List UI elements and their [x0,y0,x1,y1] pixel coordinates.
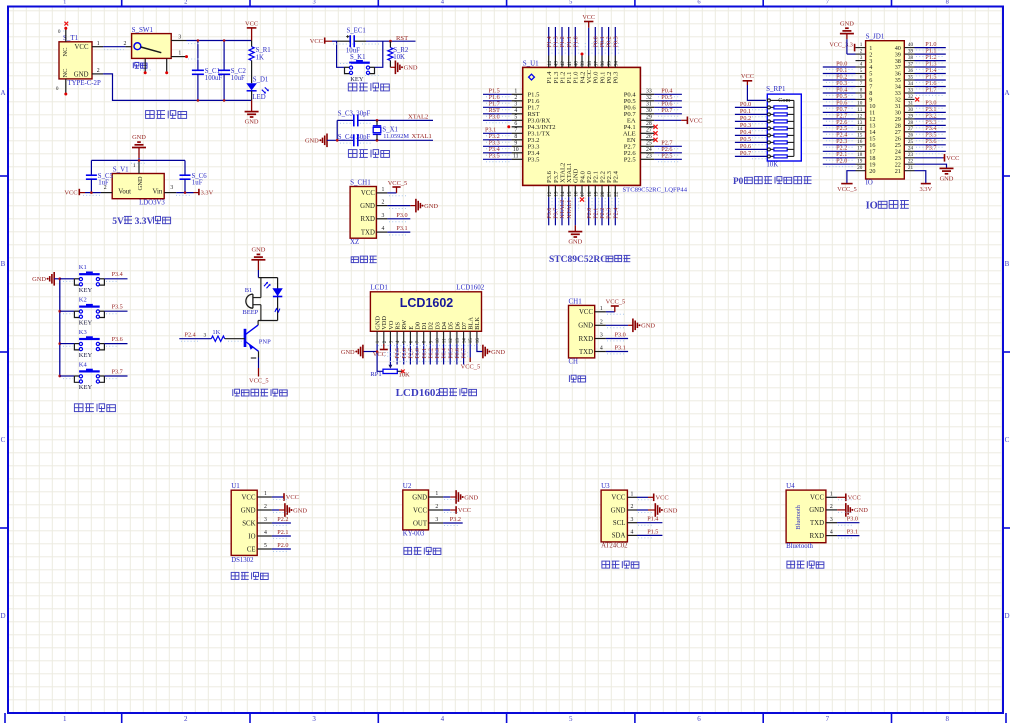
svg-text:14: 14 [560,191,566,197]
svg-text:LCD1602: LCD1602 [396,387,442,399]
svg-text:GND: GND [491,349,505,356]
svg-text:P0: P0 [733,177,744,187]
svg-text:37: 37 [593,61,599,67]
svg-text:Bluetooth: Bluetooth [795,504,802,529]
svg-text:XTAL1: XTAL1 [566,200,573,219]
svg-text:27: 27 [908,126,914,132]
svg-text:KEY: KEY [79,287,93,294]
svg-text:6: 6 [860,74,863,80]
svg-text:P0.1: P0.1 [740,108,751,115]
svg-text:P0.7: P0.7 [740,150,751,157]
svg-text:BLK: BLK [474,317,481,330]
svg-text:GND: GND [840,20,854,27]
svg-text:XTAL1: XTAL1 [412,133,432,140]
svg-text:VCC: VCC [458,507,471,514]
svg-text:1: 1 [630,491,633,497]
svg-text:3: 3 [435,517,438,523]
svg-text:P3.4: P3.4 [112,271,123,278]
svg-text:VCC: VCC [611,495,625,502]
svg-text:P0.7: P0.7 [462,348,468,359]
svg-text:21: 21 [607,191,613,197]
svg-text:P0.1: P0.1 [422,348,428,359]
svg-text:3: 3 [312,715,316,723]
svg-text:1: 1 [63,715,67,723]
svg-text:2: 2 [184,715,188,723]
svg-text:23: 23 [908,152,914,158]
svg-text:P2.5: P2.5 [624,157,637,164]
svg-text:P0.7: P0.7 [661,107,672,114]
svg-text:2: 2 [630,504,633,510]
svg-text:4: 4 [860,61,863,67]
svg-text:AT24C02: AT24C02 [601,543,628,550]
svg-text:P0.2: P0.2 [428,348,434,359]
svg-text:NC: NC [62,68,69,77]
svg-text:VCC: VCC [579,309,593,316]
svg-text:24: 24 [908,146,914,152]
svg-text:6: 6 [514,121,517,127]
svg-text:1: 1 [435,491,438,497]
svg-text:S_JD1: S_JD1 [866,33,885,41]
svg-text:27: 27 [646,127,652,133]
svg-text:0: 0 [58,29,61,35]
svg-text:26: 26 [908,133,914,139]
svg-text:P0.4: P0.4 [442,348,448,359]
svg-text:P2.5: P2.5 [661,153,672,160]
svg-text:22: 22 [613,191,619,197]
svg-text:16: 16 [573,191,579,197]
svg-text:VCC: VCC [286,494,299,501]
svg-text:LCD1602: LCD1602 [456,284,485,292]
svg-text:CH1: CH1 [569,297,583,305]
svg-text:P3.1: P3.1 [615,344,626,351]
svg-text:2: 2 [860,49,863,55]
svg-text:20: 20 [600,191,606,197]
svg-text:S_C4: S_C4 [338,134,354,141]
svg-text:18: 18 [857,152,863,158]
svg-text:GND: GND [132,134,146,141]
svg-text:19: 19 [857,159,863,165]
svg-text:3: 3 [312,0,315,6]
svg-text:CH: CH [569,359,579,366]
svg-text:4: 4 [382,226,385,232]
svg-text:P3.0: P3.0 [615,331,626,338]
svg-text:GND: GND [664,507,678,514]
svg-text:DS1302: DS1302 [231,557,254,564]
svg-text:1K: 1K [212,329,220,336]
svg-text:13: 13 [554,191,560,197]
svg-text:39: 39 [580,61,586,67]
svg-text:S_RP1: S_RP1 [766,85,786,93]
svg-text:IO: IO [248,533,255,540]
svg-text:GND: GND [32,276,46,283]
svg-text:15: 15 [567,191,573,197]
svg-text:22: 22 [908,159,914,165]
svg-text:9: 9 [860,94,863,100]
svg-text:GND: GND [251,247,265,254]
svg-text:GND: GND [641,323,655,330]
svg-text:19: 19 [593,191,599,197]
svg-text:11: 11 [513,153,519,159]
svg-text:14: 14 [463,338,468,344]
svg-text:Vin: Vin [153,188,163,195]
svg-text:GND: GND [412,494,427,501]
svg-text:S_C2: S_C2 [231,68,247,75]
svg-text:K2: K2 [79,297,87,304]
svg-text:2: 2 [264,504,267,510]
svg-text:U4: U4 [786,482,795,490]
svg-text:P0.0: P0.0 [740,101,751,108]
svg-text:U2: U2 [403,482,412,490]
svg-text:U3: U3 [601,482,610,490]
svg-text:29: 29 [646,114,652,120]
svg-text:33: 33 [908,87,914,93]
svg-text:LED: LED [252,94,265,101]
svg-text:P0.6: P0.6 [740,143,751,150]
svg-text:2: 2 [104,185,107,191]
svg-text:VCC: VCC [75,44,89,51]
svg-text:GND: GND [464,494,478,501]
svg-text:12: 12 [547,191,553,197]
svg-text:3: 3 [178,35,181,41]
svg-text:7: 7 [826,715,830,723]
svg-text:34: 34 [613,61,619,67]
svg-text:8: 8 [946,0,949,6]
svg-text:VCC: VCC [413,507,427,514]
svg-text:U1: U1 [231,482,240,490]
svg-text:P2.0: P2.0 [836,158,847,165]
svg-text:3: 3 [382,213,385,219]
svg-text:IO: IO [866,201,878,212]
svg-text:GND: GND [940,175,954,182]
svg-text:K1: K1 [79,264,87,271]
svg-text:VCC_3.3: VCC_3.3 [829,41,853,48]
svg-text:S_V1: S_V1 [113,165,129,173]
svg-text:1uF: 1uF [192,179,203,186]
svg-text:P2.2: P2.2 [277,516,288,523]
svg-text:NC: NC [62,47,69,56]
svg-text:8: 8 [860,87,863,93]
svg-text:36: 36 [908,68,914,74]
svg-text:TXD: TXD [361,229,375,236]
svg-text:32: 32 [646,95,652,101]
svg-text:0: 0 [56,86,59,92]
svg-text:B: B [1,260,6,268]
svg-text:3: 3 [630,517,633,523]
svg-text:TYPE-C-2P: TYPE-C-2P [68,80,101,87]
svg-text:S_EC1: S_EC1 [347,27,366,34]
svg-text:C: C [1,436,6,444]
svg-text:17: 17 [580,191,586,197]
svg-text:GND: GND [568,239,582,246]
svg-text:B1: B1 [245,287,253,294]
svg-text:P0.0: P0.0 [415,348,421,359]
svg-text:1: 1 [860,42,863,48]
svg-text:GND: GND [245,119,259,126]
svg-text:5: 5 [264,543,267,549]
svg-text:1: 1 [600,306,603,312]
svg-text:2: 2 [600,319,603,325]
svg-text:STC89C52RC: STC89C52RC [549,255,607,265]
svg-text:15: 15 [469,338,474,344]
svg-text:S_U1: S_U1 [523,59,539,67]
svg-text:VCC_5: VCC_5 [606,299,626,306]
svg-text:S_K1: S_K1 [350,54,366,61]
svg-text:LCD1: LCD1 [370,284,388,292]
svg-text:1: 1 [264,491,267,497]
svg-text:2: 2 [184,0,187,6]
svg-text:GND: GND [360,203,375,210]
svg-text:3.3V: 3.3V [919,186,932,193]
svg-text:A: A [1004,89,1009,97]
svg-text:VCC: VCC [373,351,386,358]
svg-text:3: 3 [860,55,863,61]
svg-text:S_R2: S_R2 [393,47,409,54]
svg-text:15: 15 [857,133,863,139]
svg-text:5: 5 [569,0,572,6]
svg-text:16: 16 [476,338,481,344]
svg-text:RXD: RXD [579,336,593,343]
svg-text:33: 33 [646,88,652,94]
svg-text:2: 2 [514,95,517,101]
svg-text:S_SW1: S_SW1 [132,26,154,34]
svg-text:30pF: 30pF [356,134,370,141]
svg-text:P3.0: P3.0 [847,516,858,523]
svg-text:GND: GND [305,138,319,145]
svg-text:5: 5 [514,114,517,120]
svg-text:6: 6 [697,715,701,723]
svg-text:VCC: VCC [810,495,824,502]
svg-text:K4: K4 [79,361,88,368]
svg-text:P2.0: P2.0 [277,542,288,549]
svg-text:9: 9 [514,140,517,146]
svg-text:13: 13 [456,338,461,344]
svg-text:P2.4: P2.4 [612,208,619,219]
svg-text:VCC_5: VCC_5 [837,186,857,193]
svg-text:GND: GND [293,507,307,514]
svg-text:44: 44 [547,61,553,67]
svg-text:P1.7: P1.7 [925,86,936,93]
svg-text:28: 28 [908,120,914,126]
svg-text:P3.1: P3.1 [847,529,858,536]
svg-text:8: 8 [514,134,517,140]
svg-text:KEY: KEY [350,76,364,83]
svg-text:100uF: 100uF [205,75,223,82]
svg-text:P0.5: P0.5 [740,136,751,143]
svg-text:S_C3: S_C3 [338,110,354,117]
svg-text:A: A [0,89,5,97]
svg-text:S_C1: S_C1 [205,68,220,75]
svg-text:40: 40 [908,42,914,48]
svg-text:17: 17 [857,146,863,152]
svg-text:SDA: SDA [612,533,626,540]
svg-text:KEY: KEY [79,319,93,326]
svg-text:P3.2: P3.2 [450,516,461,523]
svg-text:S_D1: S_D1 [253,76,268,83]
svg-text:23: 23 [646,153,652,159]
svg-text:P0.5: P0.5 [448,348,454,359]
svg-text:RXD: RXD [361,216,375,223]
svg-text:2: 2 [830,504,833,510]
svg-text:P2.6: P2.6 [402,348,408,359]
svg-text:TXD: TXD [579,349,593,356]
svg-text:4: 4 [630,530,633,536]
svg-text:1: 1 [178,51,181,57]
svg-text:10K: 10K [399,372,411,379]
svg-text:P3.5: P3.5 [489,153,500,160]
svg-text:P0.6: P0.6 [455,348,461,359]
svg-text:1K: 1K [256,55,264,62]
svg-text:25: 25 [908,139,914,145]
svg-text:4: 4 [264,530,267,536]
svg-text:VCC_5: VCC_5 [461,364,481,371]
svg-text:LCD1602: LCD1602 [400,296,454,310]
svg-text:GND: GND [578,323,593,330]
svg-text:2: 2 [435,504,438,510]
svg-text:2: 2 [382,200,385,206]
svg-text:1: 1 [133,163,136,169]
svg-text:4: 4 [514,108,517,114]
svg-text:3: 3 [600,333,603,339]
svg-text:24: 24 [646,147,652,153]
svg-text:34: 34 [908,81,914,87]
svg-text:13: 13 [857,120,863,126]
svg-text:GND: GND [404,65,418,72]
svg-text:P1.5: P1.5 [647,528,658,535]
svg-text:4: 4 [830,530,833,536]
svg-text:20: 20 [857,165,863,171]
svg-text:5: 5 [860,68,863,74]
svg-text:29: 29 [908,113,914,119]
svg-text:P3.6: P3.6 [112,336,123,343]
svg-text:P1.4: P1.4 [647,516,658,523]
svg-text:2: 2 [123,41,126,47]
svg-text:25: 25 [646,140,652,146]
svg-text:41: 41 [567,61,573,67]
svg-text:GND: GND [809,507,824,514]
svg-text:GND: GND [137,176,144,190]
svg-text:3: 3 [170,185,173,191]
svg-text:BEEP: BEEP [242,309,258,316]
svg-text:XTAL2: XTAL2 [408,113,428,120]
svg-text:10: 10 [857,100,863,106]
svg-text:P2.1: P2.1 [277,529,288,536]
svg-text:5: 5 [569,715,573,723]
svg-text:14: 14 [857,126,863,132]
svg-text:GND: GND [74,71,89,78]
svg-text:GND: GND [241,507,256,514]
svg-text:7: 7 [514,127,517,133]
svg-text:Bluetooth: Bluetooth [786,543,813,550]
svg-text:1: 1 [63,0,66,6]
svg-text:11.0592M: 11.0592M [383,133,409,140]
svg-text:P1.0: P1.0 [572,36,579,47]
svg-text:VCC: VCC [689,118,702,125]
svg-text:D: D [0,612,5,620]
svg-text:1: 1 [830,491,833,497]
svg-text:38: 38 [587,61,593,67]
svg-text:KY-003: KY-003 [403,530,425,537]
svg-text:D: D [1004,612,1009,620]
svg-text:VCC: VCC [64,189,77,196]
svg-text:8: 8 [945,715,949,723]
svg-text:GND: GND [424,203,438,210]
svg-text:P3.5: P3.5 [112,304,123,311]
svg-text:21: 21 [908,165,914,171]
svg-text:C: C [1005,436,1010,444]
svg-text:VCC: VCC [741,73,754,80]
svg-text:KEY: KEY [79,352,93,359]
svg-text:CE: CE [247,546,256,553]
svg-text:P0.2: P0.2 [740,115,751,122]
svg-text:OUT: OUT [413,520,428,527]
svg-text:32: 32 [908,94,914,100]
svg-text:RP1: RP1 [370,371,381,378]
svg-text:10K: 10K [766,161,778,168]
svg-text:P0.3: P0.3 [435,348,441,359]
svg-text:3: 3 [204,332,207,338]
svg-text:5V: 5V [112,217,124,227]
svg-text:RXD: RXD [810,533,824,540]
svg-text:37: 37 [908,61,914,67]
svg-text:Vout: Vout [118,188,131,195]
svg-text:P3.1: P3.1 [396,225,407,232]
svg-text:P2.7: P2.7 [409,348,415,359]
svg-text:10: 10 [436,338,441,344]
svg-text:31: 31 [646,101,652,107]
svg-text:S_R1: S_R1 [256,47,271,54]
svg-text:30pF: 30pF [356,110,370,117]
svg-text:35: 35 [908,74,914,80]
svg-text:26: 26 [646,134,652,140]
svg-text:3: 3 [514,101,517,107]
svg-text:4: 4 [441,715,445,723]
svg-text:18: 18 [587,191,593,197]
svg-text:P3.7: P3.7 [925,145,936,152]
svg-text:STC89C52RC_LQFP44: STC89C52RC_LQFP44 [623,187,688,194]
svg-text:P3.0: P3.0 [396,212,407,219]
svg-text:39: 39 [908,49,914,55]
svg-text:30: 30 [908,107,914,113]
svg-text:P3.5: P3.5 [528,157,541,164]
svg-text:11: 11 [443,338,448,343]
svg-text:PNP: PNP [259,338,271,345]
svg-text:3: 3 [830,517,833,523]
svg-text:40: 40 [573,61,579,67]
svg-text:VCC: VCC [361,190,375,197]
svg-text:P2.4: P2.4 [613,170,620,183]
svg-text:12: 12 [449,338,454,344]
svg-text:LDO3V3: LDO3V3 [139,199,165,206]
svg-text:P2.5: P2.5 [395,348,401,359]
svg-text:XZ: XZ [350,239,359,246]
svg-text:VCC: VCC [242,494,256,501]
svg-text:2: 2 [97,68,100,74]
svg-text:IO: IO [866,180,873,187]
svg-text:4: 4 [600,346,603,352]
svg-text:11: 11 [857,107,862,113]
svg-text:35: 35 [607,61,613,67]
svg-text:VCC_5: VCC_5 [249,377,269,384]
svg-text:P0.3: P0.3 [613,71,620,84]
svg-text:VCC_5: VCC_5 [388,180,408,187]
svg-text:12: 12 [857,113,863,119]
svg-text:3.3V: 3.3V [201,189,214,196]
svg-text:42: 42 [560,61,566,67]
svg-text:10K: 10K [393,54,405,61]
svg-text:P3.0: P3.0 [489,114,500,121]
svg-text:21: 21 [895,168,901,175]
svg-text:VCC: VCC [310,38,323,45]
